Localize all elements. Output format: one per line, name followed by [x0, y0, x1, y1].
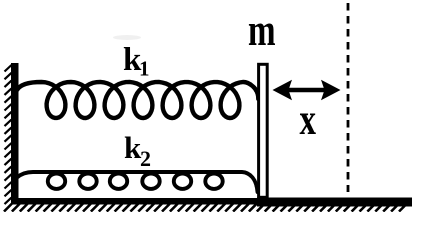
svg-text:1: 1	[139, 57, 150, 81]
svg-text:x: x	[300, 96, 317, 145]
svg-text:m: m	[248, 4, 276, 56]
svg-text:2: 2	[140, 146, 151, 171]
